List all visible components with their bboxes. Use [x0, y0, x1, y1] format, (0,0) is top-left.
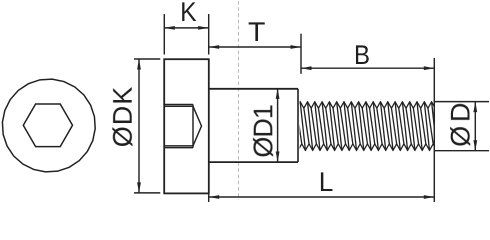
dimension K line [164, 27, 208, 29]
dimension D bottom extension [434, 150, 489, 152]
hex socket end-view hexagon [23, 104, 72, 147]
hex socket depth line [192, 105, 194, 148]
hex socket side-view inner bottom line [164, 145, 193, 147]
svg-text:T: T [248, 17, 265, 47]
svg-text:B: B [354, 40, 370, 70]
dimension K extension left [163, 14, 165, 55]
dimension K / head right extension [208, 14, 210, 55]
dimension L line [209, 196, 435, 198]
shoulder shank end line [297, 89, 299, 162]
dimension DK top extension [134, 58, 160, 60]
hex socket drill cone [193, 106, 202, 146]
head end-view circle [2, 79, 95, 172]
head side-view rectangle [164, 59, 209, 193]
thread pattern [293, 102, 448, 151]
thread end line / right extension line [433, 58, 435, 202]
dimension D1 line [277, 88, 279, 162]
shoulder shank bottom line [209, 161, 298, 163]
dimension T right extension [300, 34, 302, 74]
head right extension below [208, 193, 210, 202]
svg-text:K: K [180, 0, 197, 27]
dimension DK line [138, 59, 140, 193]
dimension DK bottom extension [134, 192, 160, 194]
dimension T line [209, 46, 301, 48]
hex socket side-view outer bottom line [164, 147, 193, 149]
svg-text:ØDK: ØDK [108, 87, 138, 148]
hex socket side-view inner top line [164, 105, 193, 107]
hex socket side-view outer top line [164, 104, 193, 106]
dimension B line [301, 67, 434, 69]
shoulder shank top line [209, 88, 298, 90]
vertical dashed centerline [238, 1, 240, 200]
svg-text:L: L [319, 167, 334, 197]
dimension D top extension [434, 101, 489, 103]
svg-text:ØD1: ØD1 [248, 104, 278, 158]
dimension D line [474, 102, 476, 151]
